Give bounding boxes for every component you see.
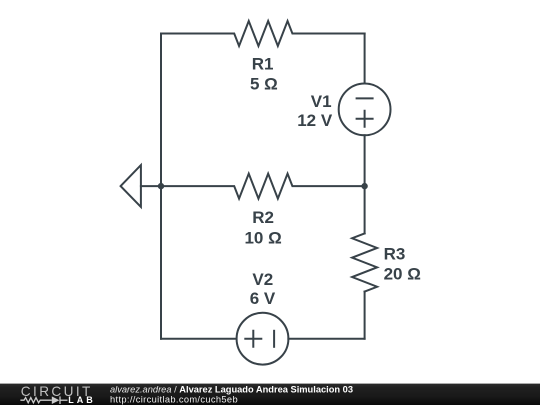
svg-text:alvarez.andrea / Alvarez Lagua: alvarez.andrea / Alvarez Laguado Andrea … — [110, 385, 353, 395]
svg-text:V1: V1 — [311, 92, 332, 111]
svg-text:http://circuitlab.com/cuch5eb: http://circuitlab.com/cuch5eb — [110, 394, 238, 404]
svg-text:6 V: 6 V — [250, 289, 276, 308]
svg-text:LAB: LAB — [68, 395, 96, 405]
svg-text:R3: R3 — [384, 244, 406, 263]
svg-text:V2: V2 — [252, 270, 273, 289]
svg-text:R1: R1 — [252, 54, 274, 73]
svg-text:12 V: 12 V — [297, 111, 333, 130]
svg-text:10 Ω: 10 Ω — [244, 228, 281, 247]
svg-text:20 Ω: 20 Ω — [384, 265, 421, 284]
svg-text:5 Ω: 5 Ω — [250, 75, 278, 94]
svg-text:R2: R2 — [252, 208, 274, 227]
